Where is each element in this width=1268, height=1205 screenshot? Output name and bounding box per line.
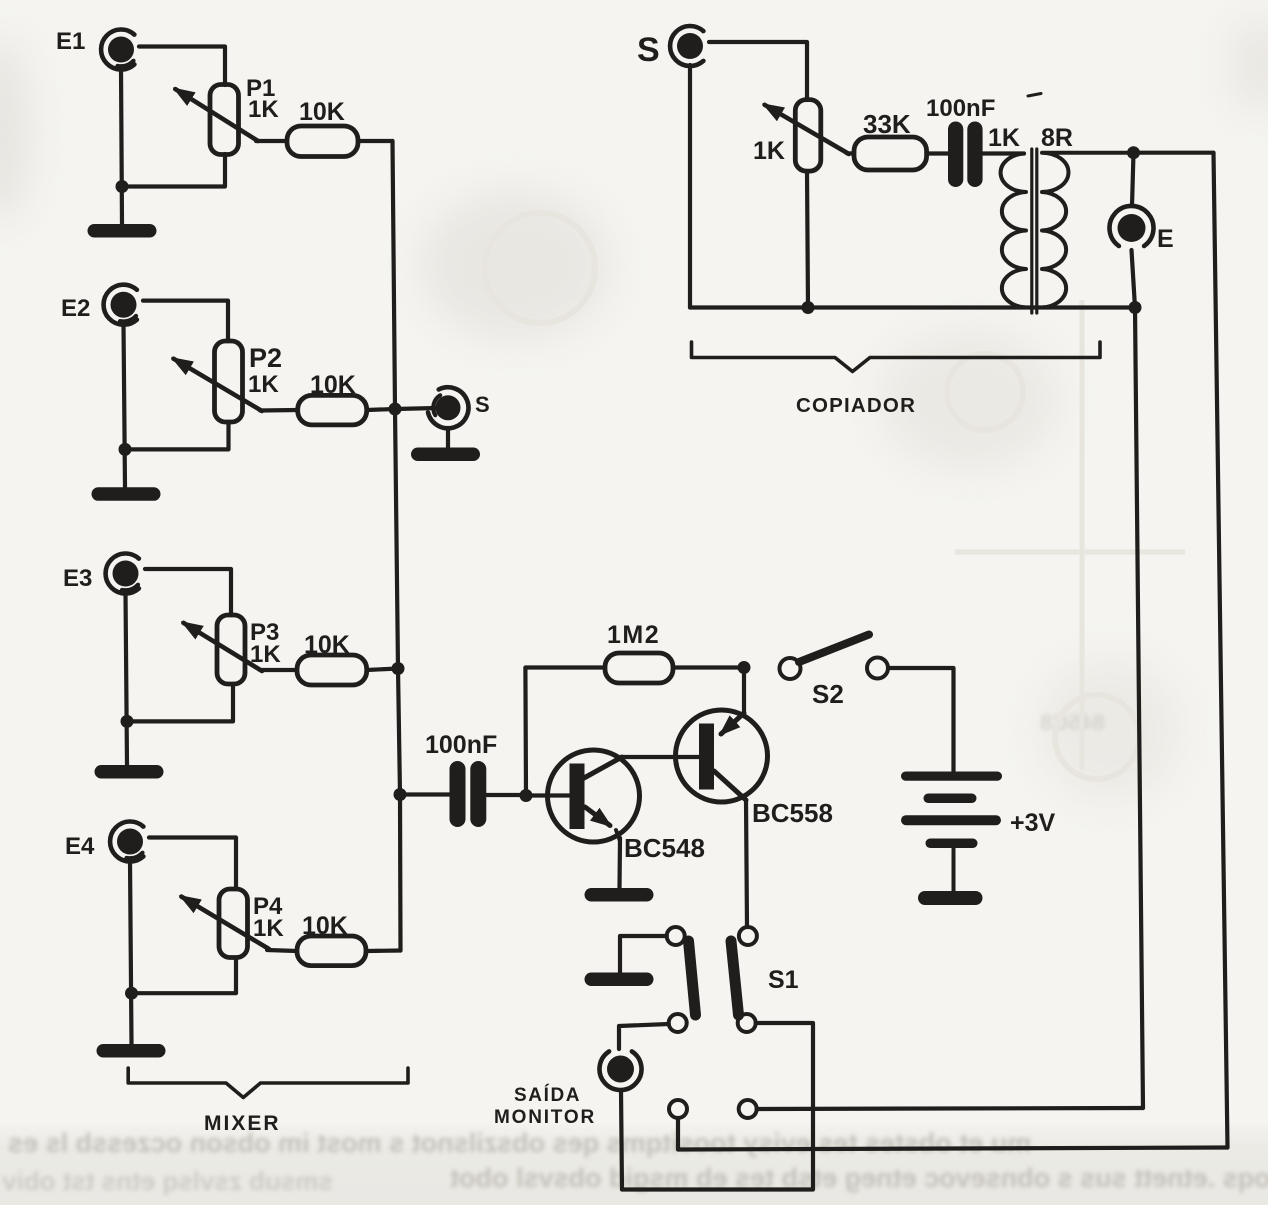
node E3 bottom junction [121, 715, 134, 728]
node P5 bottom junction [802, 301, 815, 314]
resistor R6 33K [854, 137, 927, 170]
wire R2 to bus [367, 409, 395, 410]
brace mixer group [128, 1068, 408, 1098]
wire S jack copiador to bottom rail [688, 65, 692, 308]
wire R3 to bus [367, 669, 398, 671]
wire Q2 collector down [746, 800, 747, 927]
svg-text:1M2: 1M2 [607, 621, 660, 649]
ground E3 [95, 765, 164, 779]
input jack E4 [110, 821, 143, 861]
wire S1 lower contact to copiador line [757, 1108, 1143, 1109]
node bus E4 junction [394, 788, 407, 801]
svg-text:MONITOR: MONITOR [494, 1107, 596, 1128]
stray scan mark [1028, 94, 1041, 97]
svg-text:1K: 1K [248, 96, 279, 123]
input jack E2 [104, 285, 137, 325]
svg-text:1K: 1K [250, 641, 281, 668]
ground E4 [97, 1044, 166, 1058]
wire P3 wiper lead [260, 668, 297, 672]
wire copiador to S1 inner riser [1135, 308, 1143, 1109]
svg-text:S: S [637, 31, 660, 69]
output jack SAIDA MONITOR [600, 1051, 642, 1090]
svg-text:+3V: +3V [1010, 809, 1056, 837]
transistor Q1 BC548 [548, 750, 640, 842]
wire S1 contact to monitor sleeve loop [621, 1023, 813, 1190]
node E1 bottom junction [116, 180, 129, 193]
svg-text:1K: 1K [248, 371, 279, 398]
svg-text:1K: 1K [753, 137, 785, 165]
svg-text:P2: P2 [249, 343, 282, 373]
svg-text:S1: S1 [768, 966, 799, 994]
potentiometer P1 [175, 85, 258, 155]
wire S jack to ground [446, 428, 450, 449]
node bus E2 junction [389, 403, 402, 416]
wire E1 jack to ground [121, 68, 122, 224]
wire R1 to bus [358, 139, 393, 143]
wire R5 to S2 node [673, 665, 744, 669]
wire S2 to battery [888, 668, 954, 773]
svg-text:10K: 10K [310, 371, 356, 399]
wire bus to S jack [395, 408, 437, 409]
wire Q1 base [526, 793, 570, 797]
wire E2 jack to ground [124, 324, 126, 488]
wire R4 to bus [366, 948, 401, 953]
ground E1 [88, 224, 157, 238]
svg-text:S: S [475, 392, 490, 417]
wire E3 junction to P3 bottom [127, 684, 233, 721]
ground S jack [411, 448, 480, 462]
node copiador bottom right junction [1129, 301, 1142, 314]
node E2 bottom junction [119, 443, 132, 456]
svg-text:100nF: 100nF [425, 731, 497, 759]
node R5 S2 junction [738, 661, 751, 674]
wire S1 contact to monitor jack [619, 1024, 669, 1049]
potentiometer P3 [183, 615, 262, 684]
svg-text:100nF: 100nF [926, 95, 995, 122]
switch S1 [667, 927, 757, 1118]
wire P4 wiper lead [267, 950, 297, 951]
resistor R3 10K [297, 655, 367, 685]
input jack S copiador [670, 26, 703, 66]
wire P5 wiper lead [847, 151, 854, 155]
svg-text:10K: 10K [304, 631, 350, 659]
output jack S mixer [428, 387, 468, 428]
svg-text:BC558: BC558 [752, 798, 833, 828]
ground S1 pole [585, 973, 654, 987]
svg-text:E1: E1 [56, 28, 85, 55]
wire bus to C1 [400, 792, 449, 796]
wire S jack to P5 top [709, 42, 807, 100]
resistor R2 10K [298, 395, 367, 425]
transformer T1 1K:8R [1001, 149, 1134, 313]
wire P1 wiper lead [256, 139, 287, 143]
capacitor C2 100nF [948, 122, 983, 188]
potentiometer P2 [174, 341, 263, 422]
wire S1 lower contact stub [678, 1118, 1228, 1150]
svg-text:E4: E4 [65, 833, 95, 860]
wire E3 jack to ground [126, 593, 128, 765]
wire E4 jack to ground [130, 861, 132, 1044]
wire E2 junction to P2 bottom [125, 422, 229, 449]
wire C2 to T1 primary [983, 151, 1024, 155]
potentiometer P4 [181, 889, 269, 958]
input jack E1 [101, 30, 134, 70]
svg-text:33K: 33K [863, 109, 911, 139]
svg-text:1K: 1K [253, 915, 284, 942]
resistor R1 10K [287, 126, 358, 157]
ground E2 [92, 487, 161, 501]
capacitor C1 100nF [450, 761, 487, 827]
svg-text:MIXER: MIXER [204, 1112, 281, 1135]
brace copiador group [692, 342, 1101, 372]
ground Q1 emitter [585, 888, 654, 902]
svg-text:BC548: BC548 [624, 833, 705, 863]
wire E4 junction to P4 bottom [132, 958, 237, 994]
resistor R5 1M2 [605, 653, 673, 683]
potentiometer P5 1K [765, 100, 849, 172]
svg-text:SAÍDA: SAÍDA [514, 1084, 581, 1106]
wire C1 to Q1 base node [487, 793, 524, 797]
svg-text:E: E [1157, 225, 1174, 253]
svg-text:8R: 8R [1041, 124, 1073, 152]
wire T1 secondary top to right rail [1134, 151, 1214, 155]
wire Q2 emitter up [742, 668, 746, 713]
wire E jack top [1132, 153, 1134, 206]
wire mixer summing bus [393, 141, 401, 951]
wire E3 jack to P3 top [145, 569, 231, 615]
wire E2 jack to P2 top [143, 301, 228, 341]
node T1 secondary top junction [1127, 146, 1140, 159]
wire P5 bottom [807, 171, 808, 308]
wire copiador bottom rail [690, 305, 1135, 309]
resistor R4 10K [297, 936, 366, 966]
node E4 bottom junction [125, 987, 138, 1000]
wire E1 junction to P1 bottom [122, 154, 225, 187]
switch S2 [780, 635, 889, 680]
svg-text:10K: 10K [299, 98, 345, 126]
transistor Q2 BC558 [676, 710, 768, 802]
wire S1 pole to ground [620, 936, 667, 973]
svg-text:E2: E2 [61, 295, 90, 322]
wire feedback riser [525, 668, 605, 796]
input jack E3 [106, 554, 139, 594]
wire E jack bottom [1132, 250, 1136, 308]
wire Q1 emitter to ground [617, 838, 622, 888]
node Q1 base junction [520, 789, 533, 802]
wire E4 jack to P4 top [149, 838, 236, 890]
svg-text:E3: E3 [63, 565, 92, 592]
svg-text:1K: 1K [988, 124, 1020, 152]
svg-text:COPIADOR: COPIADOR [796, 394, 916, 417]
wire Q1 collector to Q2 base [622, 755, 699, 759]
wire E1 jack to P1 top [139, 47, 225, 86]
node bus E3 junction [392, 662, 405, 675]
output jack E copiador [1110, 206, 1154, 246]
svg-text:10K: 10K [302, 912, 348, 940]
svg-text:S2: S2 [812, 679, 844, 709]
wire secondary to S1 outer riser [1214, 153, 1228, 1148]
wire R6 to C2 [927, 151, 948, 155]
battery B1 3V [901, 772, 1002, 906]
wire P2 wiper lead [260, 408, 298, 413]
